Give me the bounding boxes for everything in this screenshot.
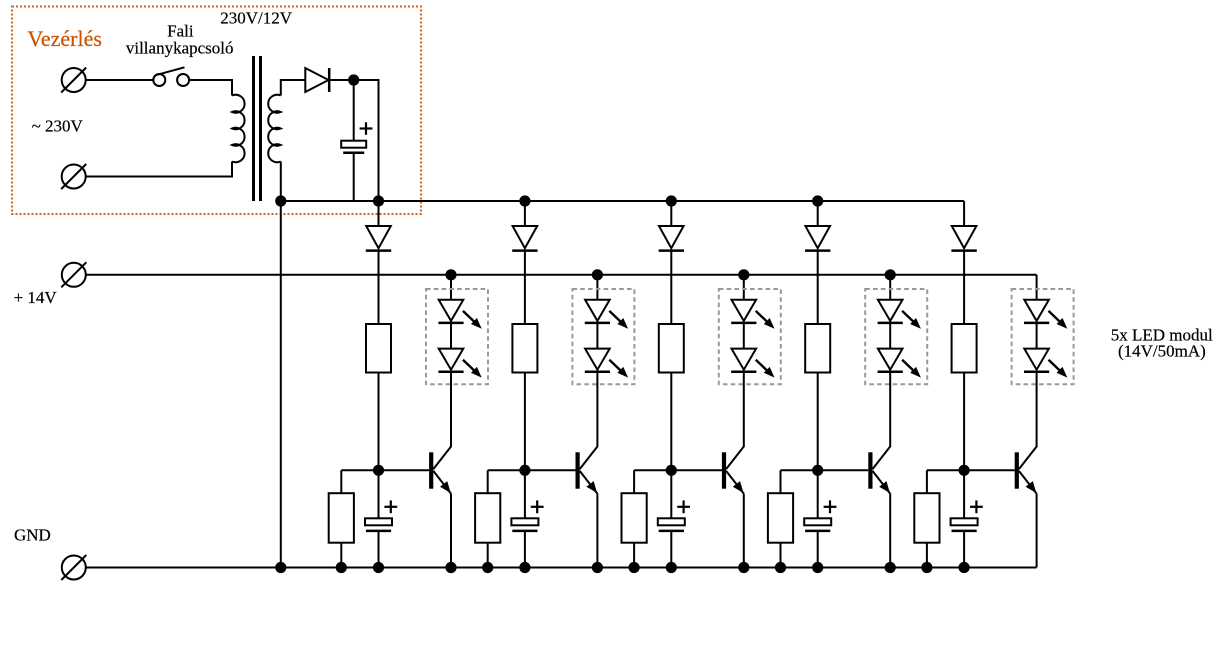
- wire: R1 to base node: [378, 373, 380, 471]
- resistor R10 (bleed): [914, 493, 939, 543]
- wire: base node down to C5: [817, 470, 819, 518]
- LED8 arrow: [902, 360, 921, 378]
- node: emitter on GND rail: [592, 562, 603, 573]
- node: +14V rail junction branch 2: [592, 269, 603, 280]
- wire: +14V to LED module 5: [1036, 275, 1038, 300]
- wire: +14V rail: [86, 274, 1037, 276]
- LED1 arrow: [463, 311, 482, 329]
- transistor Q5 emitter lead: [1019, 471, 1037, 494]
- wire: emitter to GND: [1036, 494, 1038, 568]
- node: base junction branch 4: [812, 465, 823, 476]
- resistor R3 (charge): [512, 324, 537, 373]
- C1 plus sign: [360, 122, 373, 135]
- svg-text:230V/12V: 230V/12V: [220, 8, 293, 27]
- node: base junction branch 1: [373, 465, 384, 476]
- wire: R4 to GND: [487, 543, 489, 568]
- node: emitter on GND rail: [738, 562, 749, 573]
- svg-text:GND: GND: [14, 526, 51, 545]
- node: +14V rail junction branch 3: [738, 269, 749, 280]
- wire: secondary top to rectifier diode: [281, 80, 306, 96]
- node: emitter on GND rail: [445, 562, 456, 573]
- wire: +14V to LED module 2: [596, 275, 598, 300]
- transistor Q4 emitter lead: [873, 471, 891, 494]
- wire: R2 to GND: [340, 543, 342, 568]
- node: base junction branch 5: [959, 465, 970, 476]
- wire: primary bottom to bottom terminal: [86, 162, 232, 177]
- wire: LED8 to collector: [889, 372, 891, 385]
- wire: base node down to R8: [780, 470, 782, 493]
- LED module 4 dashed box: [865, 289, 927, 384]
- C5 plus sign: [824, 500, 837, 513]
- node: secondary return on GND rail: [275, 562, 286, 573]
- timing capacitor C2: [365, 518, 392, 531]
- LED6: [731, 349, 756, 372]
- resistor R9 (charge): [952, 324, 977, 373]
- wire: R9 to base node: [963, 373, 965, 471]
- wire: D5 to resistor R7: [817, 251, 819, 324]
- transistor Q5 collector lead: [1019, 385, 1037, 469]
- LED7 arrow: [902, 311, 921, 329]
- wire: base node down to C4: [670, 470, 672, 518]
- rectifier diode D1: [305, 68, 329, 92]
- terminal L (~230V top): [61, 68, 86, 93]
- wire: base node down to C3: [524, 470, 526, 518]
- transformer TR1 primary winding: [232, 95, 245, 162]
- C3 plus sign: [531, 500, 544, 513]
- transistor Q2 emitter arrow: [586, 481, 597, 493]
- LED module 2 dashed box: [572, 289, 634, 384]
- LED9 arrow: [1049, 311, 1068, 329]
- LED module 3 dashed box: [719, 289, 781, 384]
- filter capacitor C1 (+) lead: [353, 80, 355, 141]
- wire: base node down to R6: [633, 470, 635, 493]
- wire: switch to transformer primary: [189, 80, 232, 96]
- terminal +14V: [61, 262, 86, 287]
- timing capacitor C5: [804, 518, 831, 531]
- wire: R8 to GND: [780, 543, 782, 568]
- LED7: [878, 300, 903, 323]
- node: R10 on GND rail: [921, 562, 932, 573]
- node: R6 on GND rail: [629, 562, 640, 573]
- resistor R4 (bleed): [475, 493, 500, 543]
- node: base junction branch 2: [519, 465, 530, 476]
- LED4 arrow: [609, 360, 628, 378]
- LED10: [1024, 349, 1049, 372]
- LED8: [878, 349, 903, 372]
- wire: R5 to base node: [670, 373, 672, 471]
- transistor Q1 collector lead: [433, 385, 451, 469]
- node: C4 on GND rail: [666, 562, 677, 573]
- transformer TR1 secondary winding: [268, 95, 281, 163]
- wire: R10 to GND: [926, 543, 928, 568]
- node: +14V rail junction branch 1: [445, 269, 456, 280]
- svg-text:~ 230V: ~ 230V: [32, 117, 84, 136]
- LED5 arrow: [756, 311, 775, 329]
- transistor Q4 base bar: [868, 452, 872, 488]
- wire: +14V to LED module 3: [743, 275, 745, 300]
- wire: R3 to base node: [524, 373, 526, 471]
- timing capacitor C3: [511, 518, 538, 531]
- wire: LED1 to LED2: [450, 323, 452, 349]
- transistor Q3 collector lead: [726, 385, 744, 469]
- LED module 1 dashed box: [426, 289, 488, 384]
- wire: C5 to GND: [817, 531, 819, 568]
- wire: C2 to GND: [378, 531, 380, 568]
- C6 plus sign: [970, 500, 983, 513]
- wire: base line branch 1: [341, 469, 429, 471]
- terminal N (~230V bottom): [61, 164, 86, 189]
- filter capacitor C1: [341, 141, 366, 153]
- node: R8 on GND rail: [775, 562, 786, 573]
- label 5x LED modul (14V/50mA): [1111, 325, 1213, 360]
- transistor Q1 emitter lead: [433, 471, 451, 494]
- wire: R6 to GND: [633, 543, 635, 568]
- svg-text:+ 14V: + 14V: [14, 288, 58, 307]
- wire: LED6 to collector: [743, 372, 745, 385]
- wire: LED3 to LED4: [596, 323, 598, 349]
- wire: LED9 to LED10: [1036, 323, 1038, 349]
- switch S1 (Fali villanykapcsoló): [153, 67, 189, 86]
- branch 4: charge diode D5: [805, 201, 830, 251]
- resistor R2 (bleed): [329, 493, 354, 543]
- branch 3: charge diode D4: [659, 201, 684, 251]
- transistor Q2 base bar: [576, 452, 580, 488]
- wire: D2 to resistor R1: [378, 251, 380, 324]
- node: secondary bottom junction: [275, 195, 286, 206]
- transistor Q4 emitter arrow: [879, 481, 890, 493]
- svg-text:villanykapcsoló: villanykapcsoló: [126, 39, 234, 58]
- resistor R5 (charge): [659, 324, 684, 373]
- wire: top terminal to switch: [86, 79, 153, 81]
- wire: D4 to resistor R5: [670, 251, 672, 324]
- svg-text:Vezérlés: Vezérlés: [27, 26, 102, 51]
- node: C2 on GND rail: [373, 562, 384, 573]
- wire: base line branch 4: [781, 469, 869, 471]
- transistor Q2 emitter lead: [580, 471, 598, 494]
- wire: secondary return down to GND rail: [280, 201, 282, 568]
- wire: C1 to secondary bottom rail: [353, 153, 355, 201]
- node: C3 on GND rail: [519, 562, 530, 573]
- resistor R7 (charge): [805, 324, 830, 373]
- LED9: [1024, 300, 1049, 323]
- wire: emitter to GND: [450, 494, 452, 568]
- resistor R6 (bleed): [622, 493, 647, 543]
- wire: base node down to R2: [340, 470, 342, 493]
- wire: LED7 to LED8: [889, 323, 891, 349]
- wire: D3 to resistor R3: [524, 251, 526, 324]
- wire: emitter to GND: [743, 494, 745, 568]
- resistor R8 (bleed): [768, 493, 793, 543]
- node: base junction branch 3: [666, 465, 677, 476]
- node: top rail junction branch 1: [373, 195, 384, 206]
- label Fali villanykapcsoló (switch): [126, 22, 234, 58]
- branch 2: charge diode D3: [512, 201, 537, 251]
- LED1: [438, 300, 463, 323]
- transistor Q1 base bar: [429, 452, 433, 488]
- LED5: [731, 300, 756, 323]
- transistor Q3 emitter arrow: [733, 481, 744, 493]
- node: R2 on GND rail: [336, 562, 347, 573]
- resistor R1 (charge): [366, 324, 391, 373]
- wire: diode to filter cap node: [329, 79, 354, 81]
- svg-text:(14V/50mA): (14V/50mA): [1118, 342, 1206, 361]
- wire: LED4 to collector: [596, 372, 598, 385]
- wire: base line branch 2: [488, 469, 576, 471]
- control box dotted border (Vezérlés box): [12, 7, 421, 215]
- node: C5 on GND rail: [812, 562, 823, 573]
- wire: LED2 to collector: [450, 372, 452, 385]
- transformer TR1 core: [254, 56, 261, 201]
- LED6 arrow: [756, 360, 775, 378]
- node: top rail junction branch 2: [519, 195, 530, 206]
- wire: GND rail: [86, 567, 1037, 569]
- wire: base node down to R4: [487, 470, 489, 493]
- wire: LED10 to collector: [1036, 372, 1038, 385]
- LED4: [585, 349, 610, 372]
- wire: emitter to GND: [596, 494, 598, 568]
- timing capacitor C6: [951, 518, 978, 531]
- transistor Q1 emitter arrow: [440, 481, 451, 493]
- LED10 arrow: [1049, 360, 1068, 378]
- transistor Q4 collector lead: [873, 385, 891, 469]
- wire: C6 to GND: [963, 531, 965, 568]
- wire: C4 to GND: [670, 531, 672, 568]
- node: top rail junction branch 3: [666, 195, 677, 206]
- wire: R7 to base node: [817, 373, 819, 471]
- branch 5: charge diode D6: [951, 201, 976, 251]
- timing capacitor C4: [658, 518, 685, 531]
- node: +14V rail junction branch 4: [885, 269, 896, 280]
- LED3 arrow: [609, 311, 628, 329]
- wire: D6 to resistor R9: [963, 251, 965, 324]
- node: C6 on GND rail: [959, 562, 970, 573]
- wire: rectifier node to first branch column: [354, 80, 379, 201]
- wire: +14V to LED module 4: [889, 275, 891, 300]
- LED module 5 dashed box: [1012, 289, 1074, 384]
- transistor Q3 base bar: [722, 452, 726, 488]
- C2 plus sign: [384, 500, 397, 513]
- wire: top distribution rail (raw DC): [281, 200, 964, 202]
- wire: secondary bottom stub: [280, 162, 282, 202]
- wire: base line branch 3: [634, 469, 722, 471]
- wire: C3 to GND: [524, 531, 526, 568]
- wire: +14V to LED module 1: [450, 275, 452, 300]
- transistor Q3 emitter lead: [726, 471, 744, 494]
- branch 1: charge diode D2: [366, 201, 391, 251]
- node: emitter on GND rail: [885, 562, 896, 573]
- wire: base node down to R10: [926, 470, 928, 493]
- transistor Q2 collector lead: [580, 385, 598, 469]
- wire: LED5 to LED6: [743, 323, 745, 349]
- wire: emitter to GND: [889, 494, 891, 568]
- terminal GND: [61, 555, 86, 580]
- node: R4 on GND rail: [482, 562, 493, 573]
- node: rectifier output junction: [348, 74, 359, 85]
- transistor Q5 emitter arrow: [1026, 481, 1037, 493]
- node: top rail junction branch 4: [812, 195, 823, 206]
- C4 plus sign: [677, 500, 690, 513]
- LED2: [438, 349, 463, 372]
- LED3: [585, 300, 610, 323]
- wire: base node down to C2: [378, 470, 380, 518]
- wire: base node down to C6: [963, 470, 965, 518]
- LED2 arrow: [463, 360, 482, 378]
- transistor Q5 base bar: [1015, 452, 1019, 488]
- wire: base line branch 5: [927, 469, 1015, 471]
